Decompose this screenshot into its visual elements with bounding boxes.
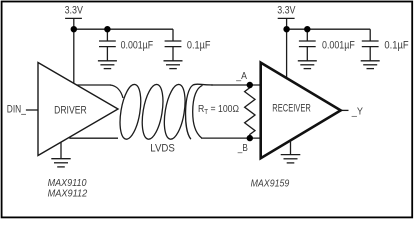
svg-text:RECEIVER: RECEIVER	[272, 102, 311, 114]
svg-text:RT = 100Ω: RT = 100Ω	[198, 103, 239, 116]
svg-text:0.001µF: 0.001µF	[121, 39, 154, 51]
svg-text:MAX9112: MAX9112	[48, 189, 88, 200]
svg-text:_A: _A	[235, 70, 247, 82]
svg-text:_Y: _Y	[351, 105, 363, 117]
svg-text:DRIVER: DRIVER	[54, 104, 87, 116]
svg-text:MAX9159: MAX9159	[251, 178, 290, 189]
svg-text:3.3V: 3.3V	[277, 5, 296, 17]
svg-text:_B: _B	[237, 142, 248, 154]
svg-text:0.001µF: 0.001µF	[322, 39, 355, 51]
svg-text:3.3V: 3.3V	[65, 5, 84, 17]
svg-text:MAX9110: MAX9110	[48, 178, 87, 189]
svg-text:DIN_: DIN_	[7, 103, 27, 115]
svg-text:0.1µF: 0.1µF	[384, 39, 408, 51]
svg-text:0.1µF: 0.1µF	[187, 39, 211, 51]
svg-text:LVDS: LVDS	[150, 142, 175, 154]
